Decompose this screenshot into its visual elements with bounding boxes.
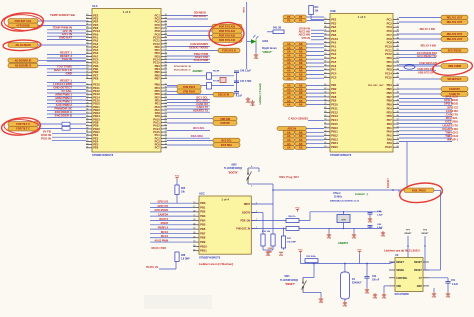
svg-text:ABM3AB2-25.000MHZ-12-32: ABM3AB2-25.000MHZ-12-32 [330,199,360,202]
svg-text:PC14: PC14 [385,72,392,76]
svg-text:R38: R38 [181,255,186,257]
svg-text:GND: GND [66,71,72,75]
svg-text:PC10: PC10 [385,44,392,48]
svg-text:PA2: PA2 [331,48,337,52]
svg-text:RELAY3 OUT: RELAY3 OUT [447,33,463,36]
svg-text:PC7: PC7 [387,33,393,37]
svg-text:FOR SYS B: FOR SYS B [222,50,236,53]
svg-text:PB4: PB4 [387,83,393,87]
svg-text:PB9: PB9 [200,240,206,244]
svg-text:STM P3V3: STM P3V3 [183,86,196,89]
svg-text:PE10: PE10 [331,103,338,107]
svg-text:XTAL2: XTAL2 [333,192,341,195]
svg-text:GND: GND [381,236,386,238]
svg-text:VDD: VDD [279,255,284,257]
svg-text:PB5: PB5 [387,87,393,91]
svg-text:3.9pF: 3.9pF [377,214,383,216]
svg-text:ADI SCLK: ADI SCLK [193,14,206,18]
svg-text:GND BAT: GND BAT [59,35,72,39]
svg-text:PD0: PD0 [387,56,393,60]
svg-text:1 of 4: 1 of 4 [358,15,366,19]
svg-text:R1451_IN: R1451_IN [146,265,158,269]
svg-text:LED2: LED2 [262,40,269,43]
svg-text:C47 4.7MF: C47 4.7MF [240,80,252,83]
svg-text:SDI MISO: SDI MISO [194,11,206,15]
svg-text:FOR SYS A31: FOR SYS A31 [219,30,236,33]
svg-text:DXA-SDA: DXA-SDA [191,134,203,138]
svg-text:R24 1k: R24 1k [288,215,296,218]
svg-text:PB2: PB2 [200,210,206,214]
svg-text:PH1-OSC_OUT: PH1-OSC_OUT [368,85,384,87]
svg-text:"BOOT0": "BOOT0" [228,171,239,174]
svg-text:GND: GND [327,238,332,240]
svg-text:RESET: RESET [422,233,430,235]
svg-text:XMR: XMR [341,220,346,222]
svg-text:I2C3 SCL: I2C3 SCL [221,140,232,143]
svg-text:PD6: PD6 [387,114,393,118]
svg-text:PE7: PE7 [331,91,337,95]
svg-text:PE0: PE0 [387,122,393,126]
svg-text:PE15: PE15 [331,122,338,126]
svg-text:PGD IN: PGD IN [41,137,51,141]
svg-text:PE5: PE5 [331,29,337,33]
svg-text:U3: U3 [395,253,399,257]
svg-text:PB5: PB5 [200,223,206,227]
svg-text:PE4: PE4 [331,25,337,29]
svg-text:PC15: PC15 [385,75,392,79]
svg-text:PB12: PB12 [331,134,338,138]
svg-text:PE2: PE2 [331,17,337,21]
svg-text:PE3: PE3 [331,21,337,25]
svg-text:PH0: PH0 [387,130,393,134]
svg-text:PA10: PA10 [385,145,392,149]
svg-text:FOR SYS A40: FOR SYS A40 [219,39,236,42]
svg-text:PB0: PB0 [200,201,206,205]
svg-text:FOR TILT Y: FOR TILT Y [16,128,30,131]
svg-text:U2C: U2C [199,192,205,196]
svg-text:AUX3 PWM: AUX3 PWM [194,58,209,62]
svg-text:I2C3-SCL: I2C3-SCL [193,126,205,130]
svg-text:AB: AB [299,104,303,107]
svg-text:TL1105RF10RQ0: TL1105RF10RQ0 [224,168,243,170]
svg-text:GND: GND [417,286,422,288]
svg-text:PC1: PC1 [387,17,393,21]
svg-text:PE13: PE13 [331,114,338,118]
svg-text:Liebherr ( if avail): Liebherr ( if avail) [259,83,262,104]
svg-text:PA8: PA8 [387,137,393,141]
svg-text:AB: AB [299,77,303,80]
svg-text:PB10: PB10 [200,244,207,248]
svg-text:AD BOARD I2: AD BOARD I2 [15,65,32,68]
svg-text:PC6: PC6 [387,29,393,33]
svg-text:FOR BAT CLK: FOR BAT CLK [15,20,32,23]
svg-text:ECU RS232: ECU RS232 [448,50,462,53]
svg-text:TL1105RF10RQ0: TL1105RF10RQ0 [280,280,299,282]
svg-text:GND: GND [352,238,357,240]
svg-text:U1A: U1A [92,4,98,8]
svg-text:PB11: PB11 [200,249,207,253]
svg-text:SENSE: SENSE [396,270,404,272]
svg-text:2.2uF: 2.2uF [452,284,459,286]
svg-text:I2C3 SDA: I2C3 SDA [221,144,232,147]
svg-text:GND: GND [250,105,255,107]
svg-text:R41 1M: R41 1M [273,26,281,29]
svg-text:USB DM: USB DM [220,118,230,121]
svg-text:RESET: RESET [414,262,422,264]
svg-text:C ADC4 SENSE5: C ADC4 SENSE5 [288,117,308,120]
svg-text:VBAT: VBAT [243,6,246,12]
svg-text:PC14-OSC32_IN: PC14-OSC32_IN [174,65,191,68]
svg-text:STM32F405RGT6: STM32F405RGT6 [199,255,221,259]
svg-text:FOR SYS A26: FOR SYS A26 [219,26,236,29]
svg-text:PA1: PA1 [331,44,337,48]
svg-text:WKUP 1: WKUP 1 [447,138,458,142]
svg-text:GND: GND [254,58,259,60]
svg-text:PB2: PB2 [331,87,337,91]
svg-text:R16 10k: R16 10k [262,231,271,233]
svg-text:25 MHz: 25 MHz [334,197,343,199]
svg-text:PC13: PC13 [331,37,338,41]
svg-text:PE9: PE9 [331,99,337,103]
svg-text:U3B: U3B [330,9,336,13]
svg-text:PA5: PA5 [331,60,337,64]
svg-text:R11: R11 [315,7,320,9]
svg-text:PB10: PB10 [331,126,338,130]
svg-text:KNX_PROG: KNX_PROG [412,189,426,192]
svg-text:PDR_ON: PDR_ON [241,221,251,223]
svg-text:PB13: PB13 [331,137,338,141]
svg-text:USB DP: USB DP [220,122,230,125]
svg-text:Bright Green: Bright Green [262,47,277,50]
svg-text:RELAY 4 IN2: RELAY 4 IN2 [421,44,437,48]
svg-text:PE1: PE1 [387,126,393,130]
svg-text:AD BOARD ID: AD BOARD ID [15,59,32,62]
svg-text:PA6: PA6 [331,64,337,68]
svg-text:TEMP SCREST Bal: TEMP SCREST Bal [50,13,75,17]
svg-text:"RESET": "RESET" [285,283,295,286]
svg-text:3.9pF: 3.9pF [377,227,383,229]
svg-text:SD DETECT: SD DETECT [447,78,462,81]
svg-text:STM32F405RGT6: STM32F405RGT6 [92,153,114,157]
svg-text:PE6: PE6 [331,33,337,37]
svg-text:PC5: PC5 [331,75,337,79]
svg-text:RESET: RESET [405,233,413,235]
svg-text:PD1: PD1 [387,60,393,64]
svg-text:PC9: PC9 [387,41,393,45]
svg-text:Liebherr :-): Liebherr :-) [355,193,368,196]
svg-text:PE11: PE11 [331,106,338,110]
svg-text:AB: AB [299,147,303,150]
svg-text:RELAY 1 IN2: RELAY 1 IN2 [420,27,436,31]
svg-text:PC7: PC7 [155,146,161,150]
svg-text:PB6: PB6 [387,91,393,95]
svg-text:SW1: SW1 [284,275,290,278]
svg-text:DEBUG TXRXD: DEBUG TXRXD [189,46,208,50]
svg-text:PH1: PH1 [387,134,393,138]
svg-text:RESET: RESET [396,262,404,264]
svg-text:FOR SYS A35: FOR SYS A35 [219,35,236,38]
svg-text:PA4: PA4 [331,56,337,60]
svg-text:R20: R20 [181,188,186,190]
svg-text:AN2867: AN2867 [338,241,349,245]
svg-text:10k DNP: 10k DNP [287,242,296,244]
svg-text:4 FB DGND: 4 FB DGND [16,25,30,28]
svg-text:CAN BOARD5: CAN BOARD5 [190,42,208,46]
svg-text:PB3: PB3 [200,214,206,218]
svg-text:GND: GND [319,302,324,304]
svg-text:Liebherr ara ab 09.11.2021!: Liebherr ara ab 09.11.2021! [384,249,420,253]
svg-text:PB1: PB1 [200,205,206,209]
svg-text:PB15: PB15 [331,145,338,149]
svg-text:GND: GND [246,102,251,104]
svg-text:AA: AA [287,104,291,107]
svg-text:R7 0R: R7 0R [213,81,220,83]
svg-text:PB9: PB9 [387,103,393,107]
svg-text:1 of 4: 1 of 4 [123,10,131,14]
svg-text:PA0: PA0 [331,41,337,45]
svg-text:GND: GND [446,297,451,299]
svg-text:KNX_Prog_KEY: KNX_Prog_KEY [279,175,299,179]
svg-text:C50: C50 [372,276,377,278]
svg-text:PD3: PD3 [387,68,393,72]
svg-text:GND: GND [266,255,271,257]
svg-text:1.2uF: 1.2uF [236,96,243,98]
svg-text:PC11: PC11 [385,48,392,52]
svg-text:PA9: PA9 [387,141,393,145]
svg-text:SW2: SW2 [231,163,237,166]
svg-text:PB7: PB7 [387,95,393,99]
svg-text:PB8: PB8 [387,99,393,103]
svg-text:MC4X / PW2: MC4X / PW2 [152,247,167,250]
svg-text:OSC32 IN: OSC32 IN [218,94,230,97]
svg-text:NTC IN: NTC IN [302,37,311,40]
svg-text:PE8: PE8 [331,95,337,99]
svg-text:PC2: PC2 [387,21,393,25]
svg-text:"HBEAT": "HBEAT" [262,51,272,54]
svg-text:1 of 4: 1 of 4 [221,198,229,202]
svg-text:FOR TILT X: FOR TILT X [16,123,30,126]
svg-text:PA7: PA7 [331,68,337,72]
svg-text:E2450U7: E2450U7 [352,282,362,285]
svg-text:RELAY4 OUT: RELAY4 OUT [447,38,463,41]
svg-text:RESET: RESET [414,270,422,272]
svg-text:PD2: PD2 [387,64,393,68]
svg-text:PC3: PC3 [387,25,393,29]
svg-text:STM P3V0: STM P3V0 [183,90,196,93]
svg-text:PB7: PB7 [155,76,161,80]
svg-text:PB8: PB8 [200,236,206,240]
svg-text:PD7: PD7 [387,118,393,122]
svg-text:100 nF: 100 nF [372,280,380,282]
svg-text:GND: GND [343,306,348,308]
svg-text:USB CONN: USB CONN [448,65,462,68]
svg-text:PE14: PE14 [331,118,338,122]
svg-text:GND: GND [373,298,378,300]
svg-text:NRST: NRST [244,204,251,206]
svg-text:CONTROL: CONTROL [396,278,408,280]
svg-text:PC8: PC8 [387,37,393,41]
svg-text:R6 0R: R6 0R [213,71,220,73]
svg-text:GND: GND [365,293,370,295]
svg-text:RELAY1 OUT: RELAY1 OUT [447,17,463,20]
svg-text:PB11: PB11 [331,130,338,134]
svg-text:BOOT0: BOOT0 [242,212,251,214]
svg-text:PE8: PE8 [93,76,99,80]
svg-text:PC12: PC12 [385,52,392,56]
svg-text:PH0-OSC_IN: PH0-OSC_IN [236,228,250,230]
svg-text:VDD: VDD [396,286,401,288]
svg-text:GND: GND [432,297,437,299]
svg-text:AN2867: AN2867 [192,69,203,73]
svg-text:PA3: PA3 [331,52,337,56]
svg-text:R19 500k: R19 500k [306,256,316,258]
svg-text:PC4: PC4 [331,72,337,76]
svg-text:SOC170EBD: SOC170EBD [395,293,409,296]
svg-text:P.HUB?: P.HUB? [386,178,390,188]
svg-text:AA: AA [287,147,291,150]
svg-text:AA: AA [287,77,291,80]
svg-text:GND: GND [368,222,373,224]
svg-text:AD-CH MAIN: AD-CH MAIN [15,44,30,47]
svg-text:ENCODER B: ENCODER B [55,113,72,117]
svg-text:PD4: PD4 [387,106,393,110]
svg-text:PB1: PB1 [331,83,337,87]
svg-text:PB6: PB6 [200,227,206,231]
svg-text:RELAY2 OUT: RELAY2 OUT [447,21,463,24]
svg-text:CAN2 RX: CAN2 RX [449,88,460,91]
svg-text:PGD IN: PGD IN [62,57,72,61]
svg-text:PE6: PE6 [93,146,99,150]
svg-text:1.8 DNP: 1.8 DNP [181,259,190,261]
svg-text:PB4: PB4 [200,218,206,222]
svg-text:USART2 TX: USART2 TX [193,108,208,112]
svg-text:PE12: PE12 [331,110,338,114]
svg-text:STM32F405RGT6: STM32F405RGT6 [330,153,352,157]
svg-text:C51: C51 [451,280,456,282]
svg-text:PB7: PB7 [200,231,206,235]
svg-text:GND: GND [382,298,387,300]
svg-text:PB14: PB14 [331,141,338,145]
svg-text:C46 2.2uF: C46 2.2uF [240,70,251,73]
svg-text:PD5: PD5 [387,110,393,114]
svg-text:PC15-OSC32_O: PC15-OSC32_O [174,70,191,72]
svg-text:Liebherr ara in [1 Wochen]: Liebherr ara in [1 Wochen] [199,262,233,266]
